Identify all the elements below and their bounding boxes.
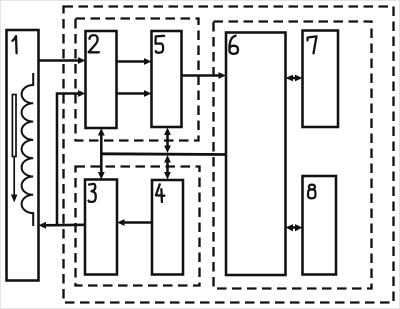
double arrow 6 - 7 xyxy=(290,77,298,80)
double arrow 6 - 8 xyxy=(290,226,298,229)
label 4 xyxy=(156,184,165,202)
right dashed group box xyxy=(214,22,372,289)
block 2 xyxy=(86,31,117,128)
lower-left dashed group box xyxy=(76,167,200,286)
bus line to 6 xyxy=(101,152,226,155)
block 4 xyxy=(152,180,183,275)
wire 2 to 5 lower xyxy=(117,92,147,95)
block 3 xyxy=(85,180,117,275)
double arrow 5 - bus xyxy=(166,132,169,150)
label 7 xyxy=(308,36,317,53)
upper-left dashed group box xyxy=(76,19,199,141)
outer dashed enclosure xyxy=(64,7,394,303)
wire 3 to 1 xyxy=(44,224,85,227)
block 8 xyxy=(303,176,337,275)
double arrow 2 - 3 xyxy=(100,132,103,176)
block 5 xyxy=(152,31,182,127)
label 6 xyxy=(229,36,238,54)
wire 1 to 2 xyxy=(39,59,80,62)
block 7 xyxy=(303,31,339,128)
block 6 xyxy=(226,33,286,276)
wire feedback branch up into 2 xyxy=(57,94,80,225)
label 2 xyxy=(89,35,99,52)
label 1 xyxy=(12,36,16,53)
wire 2 to 5 upper xyxy=(117,60,147,63)
double arrow bus - 4 xyxy=(166,159,169,176)
core motion arrow xyxy=(13,157,15,196)
label 5 xyxy=(156,36,165,53)
coil L in block 1 xyxy=(22,73,34,226)
label 8 xyxy=(308,185,315,199)
wire 5 to 6 xyxy=(182,74,221,77)
wire 4 to 3 xyxy=(123,221,153,224)
movable core rod in block 1 xyxy=(12,95,16,157)
block 1 (sensor) xyxy=(7,30,39,281)
label 3 xyxy=(89,184,96,202)
